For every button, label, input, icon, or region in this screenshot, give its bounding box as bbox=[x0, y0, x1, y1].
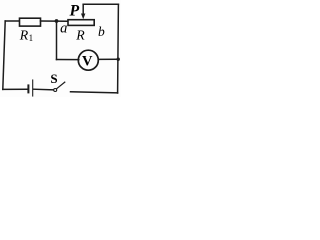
rheostat R track bbox=[68, 20, 94, 26]
svg-text:a: a bbox=[60, 21, 67, 37]
svg-text:R: R bbox=[19, 28, 29, 43]
slider arrow head bbox=[81, 14, 85, 20]
node B junction dot (voltmeter to right frame) bbox=[117, 58, 120, 61]
wire: branch from node A down to voltmeter bbox=[56, 21, 58, 60]
wire: left frame vertical bbox=[3, 21, 5, 89]
wire: right frame vertical bbox=[117, 4, 120, 93]
svg-text:R: R bbox=[75, 28, 85, 43]
slider arrow P shaft bbox=[82, 4, 84, 14]
battery cell positive plate (long) bbox=[32, 80, 34, 96]
battery cell negative plate (short) bbox=[27, 85, 29, 92]
wire: battery to switch bbox=[33, 88, 53, 91]
svg-text:V: V bbox=[82, 53, 93, 69]
wire: top-left horizontal to R1 bbox=[5, 20, 19, 22]
wire: top from slider to right frame bbox=[83, 3, 118, 5]
node A junction dot bbox=[55, 19, 59, 23]
wire: voltmeter to right frame bbox=[98, 58, 119, 60]
switch S pivot contact bbox=[54, 89, 57, 92]
svg-text:S: S bbox=[50, 71, 57, 86]
svg-text:b: b bbox=[98, 24, 105, 39]
svg-text:P: P bbox=[70, 3, 80, 20]
resistor R1 bbox=[20, 18, 41, 26]
wire: bottom left horizontal bbox=[3, 88, 28, 90]
voltmeter V1 bbox=[78, 50, 98, 70]
switch S blade (open) bbox=[57, 82, 65, 89]
svg-text:1: 1 bbox=[29, 33, 33, 43]
wire: switch to bottom-right corner bbox=[71, 92, 118, 93]
wire: R1 to node A and rheostat bbox=[41, 20, 69, 22]
wire: node A branch to voltmeter left bbox=[57, 59, 79, 61]
